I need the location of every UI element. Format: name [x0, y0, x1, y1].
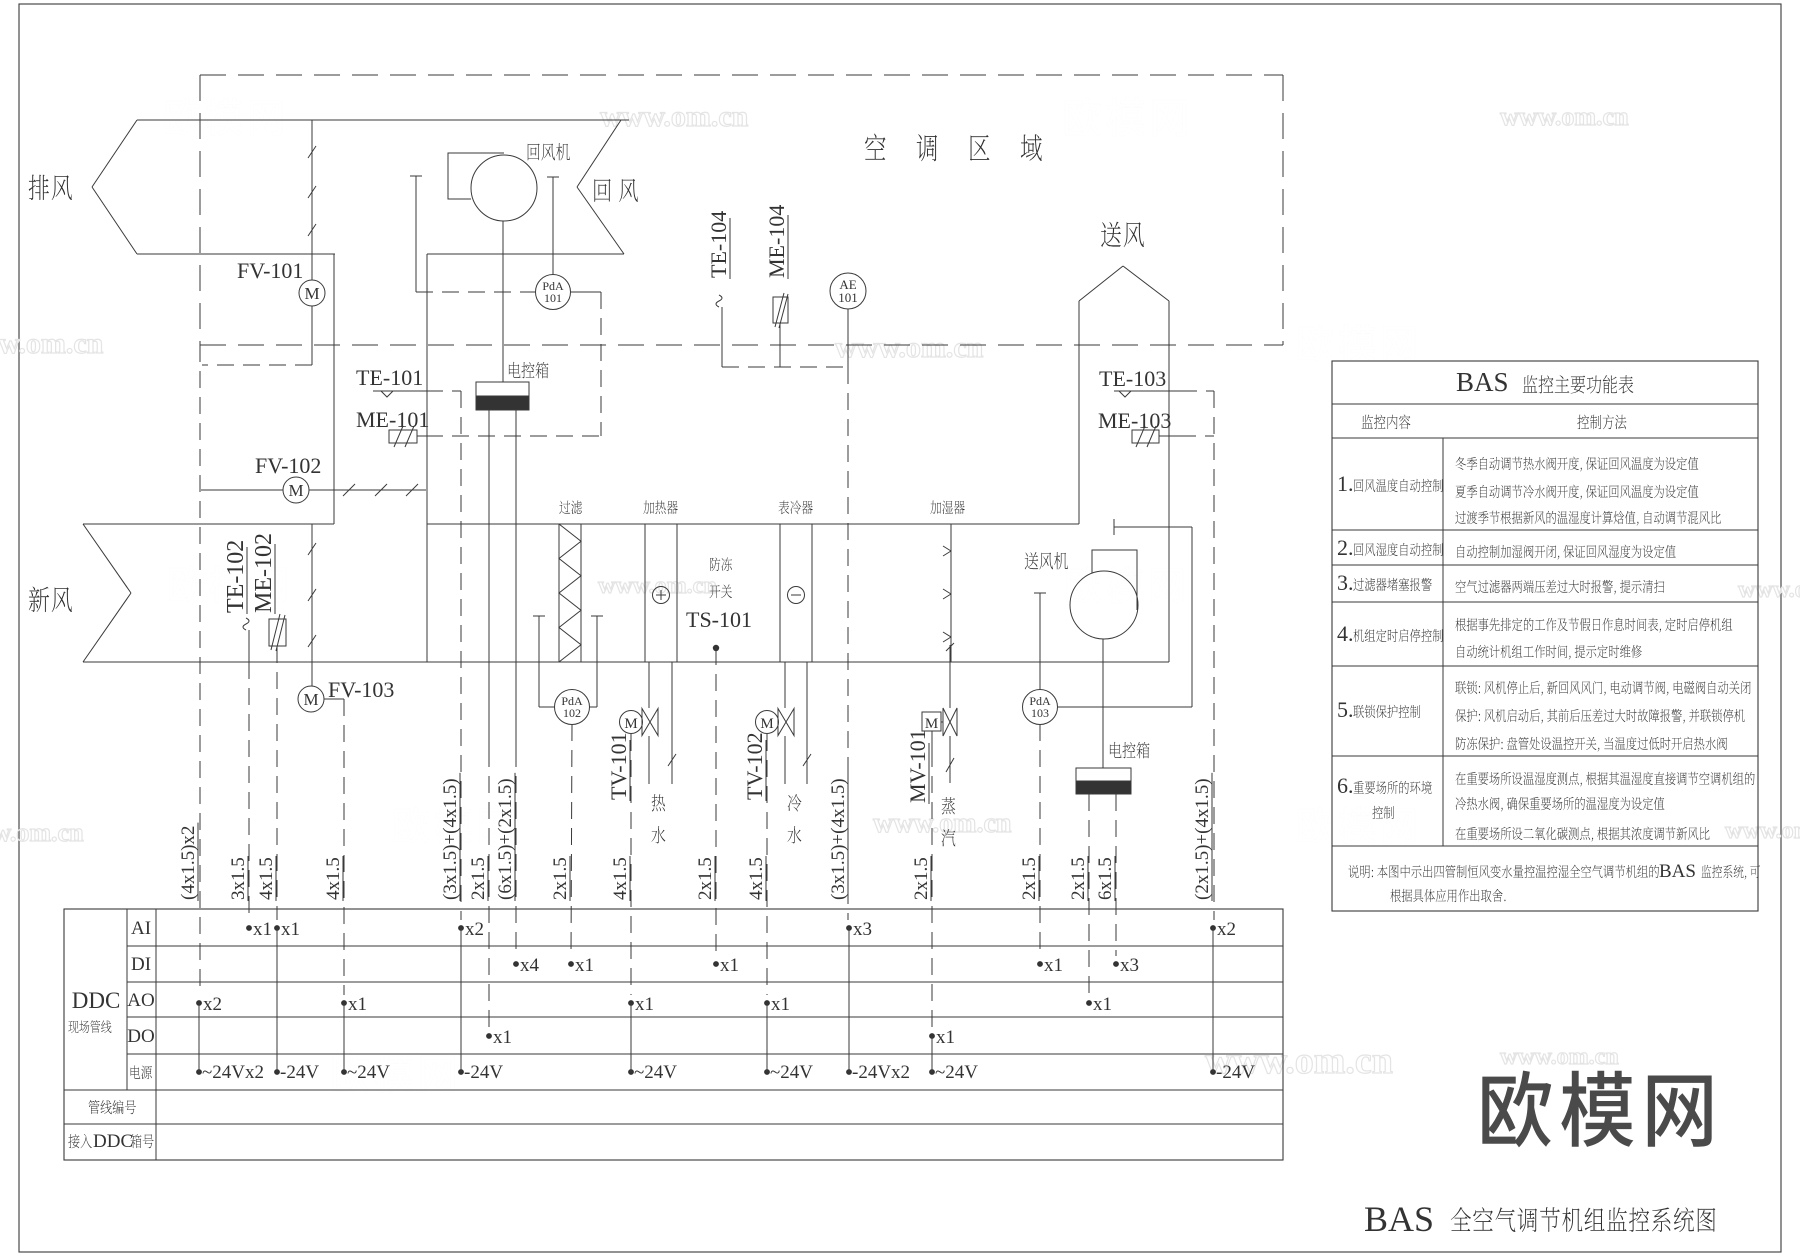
svg-text:x2: x2 — [465, 919, 484, 940]
sensor ME-103 — [1132, 426, 1214, 447]
svg-text:(4x1.5)x2: (4x1.5)x2 — [178, 826, 199, 900]
svg-text:ME-104: ME-104 — [764, 205, 789, 278]
sensor PdA-101 — [410, 176, 601, 436]
table note 说明 — [1348, 861, 1760, 902]
label 热水 — [652, 794, 666, 843]
cooling coil 表冷器 section — [780, 524, 812, 662]
svg-text:2x1.5: 2x1.5 — [1068, 857, 1089, 900]
label 新风 — [29, 587, 72, 613]
svg-text:x2: x2 — [203, 994, 222, 1015]
label TE-104 — [706, 211, 731, 278]
row 2 回风湿度自动控制 — [1337, 535, 1676, 560]
svg-text:101: 101 — [838, 290, 858, 305]
svg-text:www.om.cn: www.om.cn — [600, 100, 749, 133]
label 送风 — [1101, 222, 1144, 248]
sensor PdA-102 — [533, 616, 603, 956]
label ME-102 — [251, 533, 277, 613]
svg-text:101: 101 — [544, 291, 562, 305]
svg-text:-24V: -24V — [280, 1062, 319, 1083]
svg-text:102: 102 — [563, 706, 581, 720]
label 防冻开关 TS-101 — [686, 557, 752, 632]
svg-text:4x1.5: 4x1.5 — [256, 857, 277, 900]
label ME-103 — [1098, 408, 1171, 433]
damper FV-101 — [202, 120, 325, 365]
svg-text:2x1.5: 2x1.5 — [695, 857, 716, 900]
dot link stubs — [199, 928, 1213, 1072]
svg-text:(3x1.5)+(4x1.5): (3x1.5)+(4x1.5) — [440, 778, 461, 900]
sensor TE-102 — [243, 618, 249, 920]
fresh air duct with chevron — [83, 524, 1169, 662]
svg-text:x1: x1 — [575, 955, 594, 976]
svg-text:M: M — [288, 481, 303, 500]
BAS table title — [1456, 367, 1633, 397]
label 电控箱 #1 — [509, 362, 549, 378]
svg-text:6x1.5: 6x1.5 — [1095, 857, 1116, 900]
svg-text:3.: 3. — [1337, 570, 1354, 595]
label 过滤 — [559, 501, 582, 515]
label 冷水 — [788, 794, 802, 843]
sensor PdA-103 — [1023, 519, 1193, 956]
svg-text:TE-103: TE-103 — [1099, 366, 1166, 391]
svg-text:4.: 4. — [1337, 621, 1354, 646]
sheet title BAS 全空气调节机组监控系统图 — [1364, 1199, 1715, 1239]
svg-text:DI: DI — [131, 954, 151, 975]
return fan 回风机 symbol — [448, 153, 537, 382]
svg-text:DDC: DDC — [93, 1131, 133, 1152]
mixing chamber right wall / AHU left wall — [426, 254, 428, 662]
svg-text:BAS: BAS — [1364, 1199, 1434, 1239]
freeze stat TS-101 — [713, 645, 719, 956]
svg-text:www.om.cn: www.om.cn — [0, 818, 84, 847]
label 送风机 — [1025, 552, 1068, 569]
label TE-102 — [223, 540, 249, 613]
BAS table headers — [1362, 415, 1627, 430]
svg-text:FV-101: FV-101 — [237, 258, 303, 283]
label ME-104 — [764, 205, 789, 278]
row 3 过滤器堵塞报警 — [1337, 570, 1664, 595]
site logo 欧模网 — [1482, 1071, 1711, 1148]
label 蒸汽 — [942, 797, 956, 846]
label 加湿器 — [930, 501, 964, 515]
svg-text:www.om.cn: www.om.cn — [1725, 818, 1800, 844]
filter 过滤 section — [559, 524, 581, 662]
row 6 重要场所的环境控制 — [1337, 772, 1755, 842]
row 5 联锁保护控制 — [1337, 681, 1751, 752]
label MV-101 — [905, 729, 930, 803]
svg-text:2x1.5: 2x1.5 — [468, 857, 489, 900]
valve TV-101 — [620, 709, 659, 996]
svg-text:(3x1.5)+(4x1.5): (3x1.5)+(4x1.5) — [828, 778, 849, 900]
label 排风 — [29, 175, 72, 201]
svg-text:MV-101: MV-101 — [905, 729, 930, 803]
label FV-103 — [328, 677, 394, 702]
svg-text:TE-104: TE-104 — [706, 211, 731, 278]
svg-text:103: 103 — [1031, 706, 1049, 720]
svg-text:www.om.cn: www.om.cn — [0, 327, 104, 360]
sensor TE-103 — [1114, 391, 1214, 920]
svg-text:TS-101: TS-101 — [686, 607, 752, 632]
DDC field wiring table — [64, 909, 1283, 1160]
valve MV-101 — [922, 708, 957, 1028]
svg-text:~24V: ~24V — [634, 1062, 677, 1083]
control box 电控箱 #2 — [1076, 768, 1131, 995]
svg-text:x1: x1 — [720, 955, 739, 976]
svg-text:M: M — [304, 284, 319, 303]
svg-text:x1: x1 — [348, 994, 367, 1015]
valve TV-102 — [756, 709, 795, 996]
label 电控箱 #2 — [1110, 742, 1150, 758]
svg-text:x1: x1 — [635, 994, 654, 1015]
label TE-103 — [1099, 366, 1166, 391]
svg-text:ME-103: ME-103 — [1098, 408, 1171, 433]
label 表冷器 — [778, 500, 812, 514]
svg-text:-24V: -24V — [464, 1062, 503, 1083]
row 4 机组定时启停控制 — [1337, 618, 1732, 660]
label ME-101 — [356, 407, 429, 432]
svg-text:2x1.5: 2x1.5 — [911, 857, 932, 900]
svg-text:ME-102: ME-102 — [251, 533, 277, 613]
svg-text:2.: 2. — [1337, 535, 1354, 560]
label 回风 — [594, 179, 638, 202]
svg-text:~24Vx2: ~24Vx2 — [202, 1062, 264, 1083]
svg-text:TV-102: TV-102 — [742, 732, 767, 800]
cable size labels — [178, 773, 1213, 901]
svg-text:4x1.5: 4x1.5 — [746, 857, 767, 900]
label TV-102 — [742, 732, 767, 800]
svg-text:~24V: ~24V — [770, 1062, 813, 1083]
svg-text:M: M — [760, 716, 773, 732]
svg-text:-24Vx2: -24Vx2 — [852, 1062, 910, 1083]
mixing chamber left wall — [333, 254, 335, 524]
label TV-101 — [606, 732, 631, 800]
svg-text:BAS: BAS — [1456, 367, 1509, 397]
svg-text:www.om.cn: www.om.cn — [1500, 102, 1629, 131]
svg-text:www.om.cn: www.om.cn — [1500, 1044, 1619, 1070]
BAS function table grid — [1332, 361, 1758, 911]
svg-text:x1: x1 — [771, 994, 790, 1015]
sensor ME-102 — [269, 614, 286, 920]
svg-text:2x1.5: 2x1.5 — [1019, 857, 1040, 900]
svg-text:4x1.5: 4x1.5 — [610, 857, 631, 900]
svg-text:FV-103: FV-103 — [328, 677, 394, 702]
svg-text:FV-102: FV-102 — [255, 453, 321, 478]
heater 加热器 section — [645, 524, 677, 662]
row 1 回风温度自动控制 — [1337, 457, 1721, 526]
svg-text:(2x1.5)+(4x1.5): (2x1.5)+(4x1.5) — [1192, 778, 1213, 900]
svg-text:x1: x1 — [936, 1027, 955, 1048]
svg-text:x3: x3 — [853, 919, 872, 940]
svg-text:www.om.cn: www.om.cn — [835, 331, 984, 364]
svg-text:5.: 5. — [1337, 697, 1354, 722]
svg-text:x4: x4 — [520, 955, 540, 976]
svg-text:6.: 6. — [1337, 773, 1354, 798]
svg-text:x1: x1 — [1093, 994, 1112, 1015]
svg-text:x1: x1 — [1044, 955, 1063, 976]
DDC power connection dots — [196, 1062, 1255, 1083]
svg-text:x1: x1 — [493, 1027, 512, 1048]
sensor TE-104 — [716, 295, 848, 367]
svg-text:DDC: DDC — [72, 988, 121, 1013]
label 回风机 — [528, 143, 570, 160]
sensor ME-101 — [389, 426, 601, 447]
svg-text:AO: AO — [127, 990, 154, 1011]
return air inlet chevron — [577, 120, 624, 254]
svg-text:~24V: ~24V — [347, 1062, 390, 1083]
sensor TE-101 — [373, 391, 461, 920]
svg-text:2x1.5: 2x1.5 — [550, 857, 571, 900]
svg-text:-24V: -24V — [1216, 1062, 1255, 1083]
exhaust air duct with left arrow — [92, 120, 629, 254]
label FV-101 — [237, 258, 303, 283]
air-conditioned zone dashed boundary — [200, 75, 1283, 995]
svg-text:M: M — [303, 690, 318, 709]
steam pipe — [946, 643, 954, 783]
humidifier 加湿器 section — [943, 524, 951, 662]
svg-text:M: M — [624, 716, 637, 732]
label 空调区域 — [865, 134, 1042, 162]
DDC table row labels — [68, 918, 154, 1152]
supply air duct with up arrow — [1079, 266, 1169, 662]
label 加热器 — [643, 500, 677, 514]
svg-text:TE-102: TE-102 — [223, 540, 249, 613]
svg-text:x2: x2 — [1217, 919, 1236, 940]
svg-text:3x1.5: 3x1.5 — [228, 857, 249, 900]
damper FV-102 — [201, 477, 426, 503]
control box 电控箱 #1 — [476, 382, 529, 1028]
svg-text:TV-101: TV-101 — [606, 732, 631, 800]
label FV-102 — [255, 453, 321, 478]
svg-text:~24V: ~24V — [935, 1062, 978, 1083]
svg-text:DO: DO — [127, 1026, 154, 1047]
sensor AE-101 — [830, 273, 866, 920]
svg-text:x3: x3 — [1120, 955, 1139, 976]
svg-text:BAS: BAS — [1659, 861, 1696, 882]
chilled water pipes — [785, 662, 811, 784]
damper FV-103 — [298, 524, 344, 995]
label TE-101 — [356, 365, 423, 390]
svg-text:AI: AI — [131, 918, 151, 939]
svg-text:1.: 1. — [1337, 471, 1354, 496]
svg-text:4x1.5: 4x1.5 — [323, 857, 344, 900]
svg-text:x1: x1 — [253, 919, 272, 940]
svg-text:www.om.cn: www.om.cn — [1738, 577, 1800, 603]
svg-text:(6x1.5)+(2x1.5): (6x1.5)+(2x1.5) — [495, 778, 516, 900]
svg-text:TE-101: TE-101 — [356, 365, 423, 390]
sensor ME-104 — [773, 293, 788, 367]
svg-text:ME-101: ME-101 — [356, 407, 429, 432]
hot water pipes — [649, 662, 676, 784]
supply fan 送风机 symbol — [1070, 550, 1138, 768]
svg-text:x1: x1 — [281, 919, 300, 940]
DDC I/O connection dots — [196, 919, 1236, 1048]
